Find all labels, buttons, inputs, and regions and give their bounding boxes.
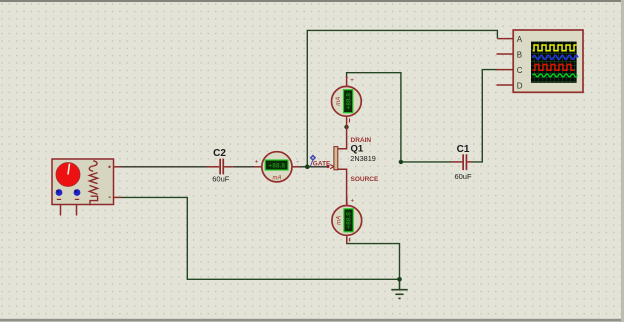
wire: ammeter AM1 to gate node bbox=[298, 166, 327, 168]
ammeter AM1 bbox=[254, 152, 299, 182]
svg-text:C1: C1 bbox=[457, 144, 470, 155]
ammeter AM2 (drain, rotated) bbox=[332, 76, 362, 116]
label 2N3819 bbox=[350, 154, 376, 163]
signal generator blue knob 2 bbox=[74, 189, 81, 196]
signal generator pin + (right top) bbox=[109, 166, 122, 168]
label GATE bbox=[313, 161, 331, 168]
signal generator waveform glyph sine bbox=[89, 161, 97, 172]
label DRAIN bbox=[351, 137, 372, 144]
svg-text:mA: mA bbox=[337, 216, 343, 225]
svg-text:+: + bbox=[350, 198, 354, 205]
oscilloscope screen bbox=[531, 42, 577, 83]
svg-text:C: C bbox=[517, 66, 523, 75]
capacitor C2 bbox=[207, 159, 233, 175]
oscilloscope trace channel A (yellow square) bbox=[533, 45, 577, 51]
top window border bbox=[0, 0, 624, 2]
voltage probe GATE bbox=[310, 155, 317, 166]
wire: top meter to upper rail and down to C1 node bbox=[347, 73, 451, 162]
svg-text:+88.8: +88.8 bbox=[346, 212, 353, 229]
right window border bbox=[621, 0, 624, 322]
svg-text:+: + bbox=[350, 77, 354, 84]
svg-text:B: B bbox=[517, 50, 522, 59]
svg-text:+: + bbox=[255, 159, 259, 166]
value 60uF (C2) bbox=[212, 174, 230, 183]
signal generator waveform glyph square bbox=[90, 196, 98, 205]
ammeter AM1 - mark bbox=[296, 159, 299, 166]
signal generator waveform glyph triangle bbox=[89, 185, 97, 194]
signal generator bottom pin 1 bbox=[60, 205, 62, 216]
svg-text:D: D bbox=[517, 81, 523, 90]
signal generator red amplitude knob bbox=[56, 163, 80, 187]
svg-text:+88.8: +88.8 bbox=[268, 163, 285, 170]
ammeter AM2 + mark bbox=[350, 77, 354, 84]
oscilloscope pin D bbox=[497, 84, 514, 86]
svg-text:C2: C2 bbox=[213, 148, 226, 159]
wire: C2 right to ammeter AM1 bbox=[233, 166, 254, 168]
oscilloscope trace channel C (red square) bbox=[533, 64, 575, 70]
oscilloscope pin A bbox=[497, 38, 513, 40]
bottom window border bbox=[0, 319, 624, 322]
signal generator waveform glyph sawtooth bbox=[89, 173, 97, 184]
oscilloscope label D bbox=[517, 81, 523, 90]
oscilloscope label B bbox=[517, 50, 522, 59]
svg-text:+88.8: +88.8 bbox=[345, 93, 352, 110]
oscilloscope OSC1 body bbox=[513, 30, 583, 92]
ammeter AM1 + mark bbox=[255, 159, 259, 166]
svg-text:SOURCE: SOURCE bbox=[351, 176, 379, 183]
wire: gate node up and across top to scope A bbox=[307, 30, 497, 166]
oscilloscope pin B bbox=[497, 53, 514, 55]
capacitor C1 bbox=[451, 154, 472, 170]
svg-text:60uF: 60uF bbox=[454, 172, 472, 181]
svg-text:mA: mA bbox=[336, 97, 342, 106]
junction: gate node bbox=[305, 165, 310, 170]
signal generator blue knob 1 bbox=[56, 189, 63, 196]
label C2 bbox=[213, 148, 226, 159]
oscilloscope pin C bbox=[496, 69, 513, 71]
oscilloscope label A bbox=[517, 35, 523, 44]
svg-text:2N3819: 2N3819 bbox=[350, 154, 376, 163]
junction: C1 node bbox=[399, 160, 403, 164]
signal generator bottom pin 2 bbox=[76, 205, 78, 216]
label SOURCE bbox=[351, 176, 379, 183]
svg-text:mA: mA bbox=[273, 176, 282, 182]
label C1 bbox=[457, 144, 470, 155]
signal generator body bbox=[52, 159, 114, 205]
junction: ground node bbox=[397, 277, 402, 282]
ammeter AM3 + mark bbox=[350, 198, 354, 205]
value 60uF (C1) bbox=[454, 172, 472, 181]
oscilloscope label C bbox=[517, 66, 523, 75]
signal generator pin - (right bottom) bbox=[109, 197, 121, 198]
ammeter AM2 - mark bbox=[349, 119, 351, 123]
svg-text:60uF: 60uF bbox=[212, 174, 230, 183]
ammeter AM3 (source, rotated) bbox=[332, 197, 362, 244]
oscilloscope trace channel B (blue sine) bbox=[533, 55, 579, 59]
signal generator knob sublabels bbox=[57, 199, 79, 200]
wire: bottom meter to ground node bbox=[347, 238, 400, 279]
wire: generator + output to C2 bbox=[121, 166, 207, 168]
oscilloscope trace channel D (green sine) bbox=[533, 74, 578, 77]
junction: drain pin to meter bbox=[344, 125, 348, 129]
transistor Q1 2N3819 JFET bbox=[326, 116, 346, 205]
label Q1 bbox=[351, 144, 364, 155]
svg-text:A: A bbox=[517, 35, 523, 44]
wire: C1 right side up to scope C bbox=[472, 70, 497, 162]
ground bbox=[391, 279, 407, 298]
ammeter AM3 - mark bbox=[349, 238, 351, 242]
wire: generator - output down and along bottom to ground node bbox=[121, 197, 400, 279]
